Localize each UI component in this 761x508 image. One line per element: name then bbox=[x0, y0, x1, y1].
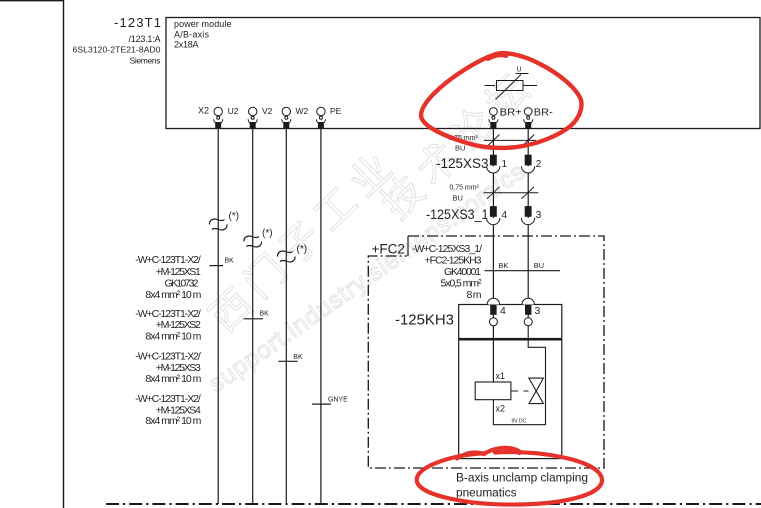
cable tick BK on wire U2 bbox=[209, 265, 223, 267]
-125XS3 pin 1 bbox=[490, 155, 497, 166]
svg-text:BK: BK bbox=[260, 311, 270, 318]
svg-text:V2: V2 bbox=[262, 106, 273, 116]
twisted-pair mark U2 bbox=[209, 219, 226, 230]
svg-text:9V DC: 9V DC bbox=[512, 419, 527, 425]
svg-text:(*): (*) bbox=[297, 244, 308, 255]
svg-text:BK: BK bbox=[293, 354, 303, 361]
terminal X2:W2 bbox=[282, 107, 291, 128]
separator bar (thick) bbox=[459, 338, 562, 341]
svg-text:BR+: BR+ bbox=[500, 107, 522, 118]
svg-text:(*): (*) bbox=[229, 211, 240, 222]
svg-text:6SL3120-2TE21-8AD0: 6SL3120-2TE21-8AD0 bbox=[73, 44, 161, 54]
cable designation line bbox=[485, 270, 561, 272]
svg-text:8x4 mm² 10 m: 8x4 mm² 10 m bbox=[145, 373, 201, 385]
svg-text:8x4 mm² 10 m: 8x4 mm² 10 m bbox=[145, 415, 201, 427]
svg-text:2x18A: 2x18A bbox=[174, 40, 199, 50]
svg-text:U2: U2 bbox=[228, 106, 239, 116]
svg-text:BK: BK bbox=[498, 261, 508, 270]
svg-text:x1: x1 bbox=[496, 371, 506, 381]
svg-text:+M-125XS2: +M-125XS2 bbox=[156, 319, 201, 331]
red annotation circle around braking resistor bbox=[421, 53, 581, 148]
wire W2 bbox=[285, 129, 287, 505]
svg-text:0,75 mm²: 0,75 mm² bbox=[449, 185, 479, 192]
cable marker 0,75 mm2 BU (lower) bbox=[484, 187, 539, 199]
cable label -W+C-123T1-X2/+M-125XS4 bbox=[135, 393, 201, 427]
terminal X2:PE bbox=[316, 107, 325, 128]
label -123T1 bbox=[73, 15, 162, 66]
terminal X2:U2 bbox=[214, 107, 223, 128]
svg-text:BU: BU bbox=[534, 261, 544, 270]
red annotation ellipse around pneumatics note bbox=[417, 452, 602, 504]
svg-text:8x4 mm² 10 m: 8x4 mm² 10 m bbox=[145, 331, 201, 343]
wire PE bbox=[320, 129, 322, 505]
svg-text:2: 2 bbox=[536, 159, 542, 170]
svg-text:x2: x2 bbox=[496, 404, 506, 414]
twisted-pair mark V2 bbox=[244, 236, 261, 247]
enclosure +FC2 dashed boundary bbox=[368, 236, 604, 468]
svg-text:U: U bbox=[517, 67, 522, 74]
terminal BR- bbox=[524, 108, 533, 129]
svg-text:+FC2-125KH3: +FC2-125KH3 bbox=[425, 255, 482, 267]
cable label -W+C-125XS3_1/+FC2-125KH3 bbox=[412, 243, 482, 301]
-125XS3 pin 2 bbox=[525, 155, 532, 166]
cable tick BK on wire W2 bbox=[278, 360, 297, 362]
svg-text:3: 3 bbox=[535, 305, 541, 317]
twisted-pair mark W2 bbox=[278, 251, 295, 262]
wire V2 bbox=[252, 129, 254, 505]
varistor U (braking resistor) bbox=[485, 74, 538, 100]
svg-text:BU: BU bbox=[453, 194, 463, 203]
svg-text:+M-125XS1: +M-125XS1 bbox=[156, 266, 201, 278]
sheet bottom dash-dot divider bbox=[106, 503, 761, 505]
wire BR- bbox=[527, 129, 529, 326]
svg-text:GK40001: GK40001 bbox=[444, 266, 481, 278]
power module -123T1 outline bbox=[166, 18, 760, 129]
cable tick GNYE on wire PE bbox=[312, 403, 331, 405]
-125KH3 pin 4 bbox=[487, 298, 499, 304]
relay coil x1 x2 bbox=[475, 382, 511, 400]
svg-text:Siemens: Siemens bbox=[130, 56, 161, 66]
svg-text:B-axis unclamp clamping: B-axis unclamp clamping bbox=[456, 470, 588, 484]
wire pin3 loop bbox=[493, 326, 545, 425]
svg-text:-W+C-123T1-X2/: -W+C-123T1-X2/ bbox=[135, 254, 201, 266]
svg-text:5x0,5 mm²: 5x0,5 mm² bbox=[441, 277, 483, 289]
-125XS3_1 pin 3 bbox=[525, 206, 532, 217]
cable label -W+C-123T1-X2/+M-125XS2 bbox=[135, 308, 201, 343]
svg-text:BU: BU bbox=[455, 144, 465, 153]
svg-text:4: 4 bbox=[502, 210, 508, 221]
svg-text:X2: X2 bbox=[198, 106, 209, 116]
svg-text:GK10732: GK10732 bbox=[165, 277, 199, 289]
svg-text:-W+C-123T1-X2/: -W+C-123T1-X2/ bbox=[135, 351, 201, 363]
svg-text:(*): (*) bbox=[262, 228, 273, 239]
svg-text:1: 1 bbox=[502, 159, 508, 170]
cable tick BK on wire V2 bbox=[244, 318, 263, 320]
cable label -W+C-123T1-X2/+M-125XS1 bbox=[135, 254, 201, 301]
svg-text:BK: BK bbox=[225, 258, 235, 265]
svg-text:-W+C-123T1-X2/: -W+C-123T1-X2/ bbox=[135, 308, 201, 320]
svg-text:GNYE: GNYE bbox=[328, 396, 348, 403]
svg-text:8 m: 8 m bbox=[467, 289, 482, 301]
svg-text:4: 4 bbox=[500, 305, 506, 317]
wire BR+ bbox=[492, 129, 494, 383]
frame left border bbox=[63, 0, 65, 508]
mechanical link bbox=[511, 390, 518, 392]
solenoid valve symbol bbox=[529, 378, 544, 404]
svg-text:W2: W2 bbox=[296, 106, 309, 116]
svg-text:-125KH3: -125KH3 bbox=[395, 312, 454, 329]
svg-text:pneumatics: pneumatics bbox=[456, 486, 517, 500]
svg-text:3: 3 bbox=[536, 210, 542, 221]
svg-text:power module: power module bbox=[174, 19, 232, 29]
svg-text:/123.1:A: /123.1:A bbox=[129, 34, 161, 44]
-125KH3 pin 3 bbox=[522, 298, 534, 304]
svg-text:-123T1: -123T1 bbox=[114, 15, 161, 30]
terminal BR+ bbox=[489, 108, 498, 129]
svg-text:-W+C-123T1-X2/: -W+C-123T1-X2/ bbox=[135, 393, 201, 405]
svg-text:-125XS3_1: -125XS3_1 bbox=[426, 207, 489, 222]
cable label -W+C-123T1-X2/+M-125XS3 bbox=[135, 351, 201, 385]
wire U2 bbox=[217, 129, 219, 505]
svg-text:+FC2: +FC2 bbox=[372, 242, 405, 257]
svg-text:PE: PE bbox=[330, 106, 342, 116]
power module description bbox=[174, 19, 232, 50]
cable marker 0,75 mm2 BU (upper) bbox=[484, 135, 536, 147]
svg-text:8x4 mm² 10 m: 8x4 mm² 10 m bbox=[145, 289, 201, 301]
svg-text:BR-: BR- bbox=[534, 107, 553, 118]
terminal X2:V2 bbox=[248, 107, 257, 128]
valve unit -125KH3 box bbox=[459, 305, 562, 459]
svg-text:A/B-axis: A/B-axis bbox=[174, 29, 210, 39]
-125XS3_1 pin 4 bbox=[490, 206, 497, 217]
svg-text:-125XS3: -125XS3 bbox=[436, 156, 489, 171]
svg-text:-W+C-125XS3_1/: -W+C-125XS3_1/ bbox=[412, 243, 482, 255]
